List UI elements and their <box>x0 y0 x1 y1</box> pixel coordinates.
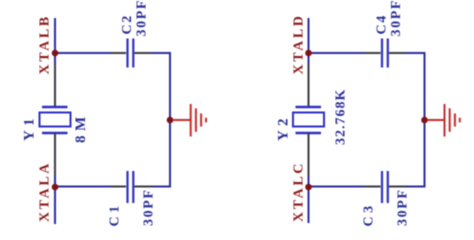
wire left vertical top stub (net XTALB) <box>54 18 56 65</box>
pin C2 pin 1 <box>110 52 126 54</box>
ground right <box>427 104 460 137</box>
node XTALA junction <box>52 184 59 191</box>
wire right vertical rail <box>169 53 171 187</box>
pin C2 pin 2 <box>135 52 153 54</box>
wire bottom horizontal from XTALA junction to C1 <box>55 186 110 188</box>
svg-text:8M: 8M <box>73 112 89 143</box>
svg-text:32.768K: 32.768K <box>334 89 349 145</box>
svg-text:30PF: 30PF <box>135 0 150 37</box>
pin Y1 pin 2 (bottom lead) <box>54 133 56 176</box>
svg-text:XTALC: XTALC <box>292 161 307 222</box>
capacitor C2 <box>128 39 134 68</box>
svg-text:XTALD: XTALD <box>292 14 307 75</box>
svg-text:C1: C1 <box>108 202 123 226</box>
node ground junction right <box>421 117 428 124</box>
wire left vertical bottom stub (net XTALA) <box>54 176 56 225</box>
crystal Y1 <box>40 107 71 133</box>
node XTALB junction <box>52 50 59 57</box>
wire right vertical rail <box>424 53 426 187</box>
svg-text:Y1: Y1 <box>22 114 38 141</box>
pin C3 pin 1 <box>364 186 381 188</box>
wire bottom horizontal from C1 to right rail <box>152 186 171 188</box>
pin C4 pin 1 <box>364 52 381 54</box>
pin C4 pin 2 <box>389 52 406 54</box>
capacitor C3 <box>382 171 388 203</box>
pin Y2 pin 1 (top lead) <box>308 65 310 108</box>
svg-text:C3: C3 <box>362 202 377 226</box>
node ground junction left <box>167 117 174 124</box>
wire bottom horizontal from C3 to right rail <box>406 186 426 188</box>
wire top horizontal from C2 to right rail <box>152 52 171 54</box>
svg-text:XTALB: XTALB <box>38 14 53 74</box>
svg-text:C4: C4 <box>375 14 390 34</box>
capacitor C4 <box>382 39 388 68</box>
pin Y1 pin 1 (top lead) <box>54 65 56 108</box>
svg-text:Y2: Y2 <box>276 114 292 141</box>
pin C3 pin 2 <box>389 186 406 188</box>
pin C1 pin 1 <box>110 186 126 188</box>
svg-text:C2: C2 <box>120 14 135 34</box>
pin Y2 pin 2 (bottom lead) <box>308 133 310 176</box>
svg-text:30PF: 30PF <box>389 0 404 37</box>
svg-text:XTALA: XTALA <box>38 161 53 222</box>
pin C1 pin 2 <box>135 186 153 188</box>
capacitor C1 <box>128 171 134 203</box>
svg-text:30PF: 30PF <box>396 188 411 226</box>
wire top horizontal from XTALD junction to C4 <box>309 52 365 54</box>
wire left vertical bottom stub (net XTALC) <box>308 176 310 224</box>
wire top horizontal from XTALB junction to C2 <box>55 52 110 54</box>
svg-text:30PF: 30PF <box>142 188 157 226</box>
wire bottom horizontal from XTALC junction to C3 <box>309 186 365 188</box>
node XTALD junction <box>305 50 312 57</box>
wire left vertical top stub (net XTALD) <box>308 18 310 65</box>
wire top horizontal from C4 to right rail <box>406 52 426 54</box>
ground left <box>173 104 207 137</box>
node XTALC junction <box>305 184 312 191</box>
crystal Y2 <box>293 107 324 133</box>
